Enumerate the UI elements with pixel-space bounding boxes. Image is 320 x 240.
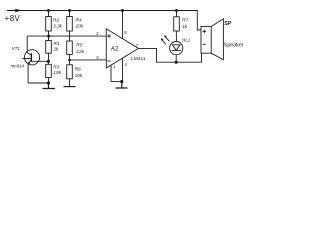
svg-text:10k: 10k — [75, 73, 83, 79]
svg-text:15k: 15k — [53, 70, 61, 76]
svg-text:3,3k: 3,3k — [53, 23, 63, 29]
node top rail junction R2 — [47, 9, 50, 12]
resistor R2 — [46, 11, 52, 37]
svg-text:Speaker: Speaker — [224, 43, 244, 49]
ground left — [43, 83, 56, 89]
node top rail junction R7 — [175, 9, 178, 12]
resistor R6 — [67, 60, 73, 87]
svg-text:2k: 2k — [53, 46, 60, 52]
wire noninverting net (collector to pin 2) — [27, 35, 106, 37]
ground R6 — [64, 86, 76, 88]
node junction R5/R6 — [68, 59, 71, 62]
speaker SP — [201, 19, 223, 60]
resistor R3 — [46, 61, 52, 83]
node LED cathode junction — [175, 61, 178, 64]
resistor R5 — [67, 36, 73, 60]
node bottom junction R3 — [47, 81, 50, 84]
svg-text:VT1: VT1 — [12, 46, 21, 51]
node top rail junction R4 — [68, 9, 71, 12]
svg-text:SP: SP — [224, 21, 232, 27]
node junction R2/R1 — [47, 35, 50, 38]
resistor R7 — [174, 11, 180, 42]
node supply arrow — [15, 9, 22, 12]
resistor R4 — [67, 11, 73, 37]
node junction R1/R3 emitter — [47, 60, 50, 63]
wire emitter net — [31, 60, 48, 62]
svg-text:+8V: +8V — [5, 14, 21, 23]
svg-text:R6: R6 — [75, 67, 81, 73]
node pin4 ground junction — [120, 80, 123, 83]
svg-text:20k: 20k — [75, 23, 84, 29]
wire inverting net (R5/R6 to pin 3) — [70, 59, 107, 61]
ground op-amp — [116, 82, 128, 88]
svg-text:HL1: HL1 — [182, 37, 191, 42]
wire +8V top rail — [7, 11, 201, 31]
svg-text:22k: 22k — [75, 49, 84, 55]
op-amp A2 — [106, 29, 138, 68]
LED HL1 — [161, 35, 183, 62]
svg-text:mn914: mn914 — [11, 64, 25, 69]
wire pin 4 — [122, 58, 124, 82]
wire emitter to ground rail — [28, 82, 48, 84]
node top rail junction pin8 — [121, 9, 124, 12]
wire pins 1-4 tie — [111, 81, 123, 83]
resistor R1 — [46, 36, 52, 61]
wire pin 1 — [110, 65, 112, 82]
svg-text:R3: R3 — [53, 64, 59, 70]
svg-text:A2: A2 — [111, 46, 119, 53]
svg-text:1k: 1k — [182, 24, 188, 30]
transistor VT1 — [22, 36, 40, 83]
svg-text:R4: R4 — [76, 17, 82, 23]
svg-text:LM311: LM311 — [131, 56, 146, 62]
svg-text:R2: R2 — [53, 18, 59, 24]
wire output net (pin 7 to LED and speaker) — [139, 48, 202, 62]
svg-text:R5: R5 — [76, 43, 82, 49]
svg-text:R1: R1 — [54, 41, 60, 47]
wire pin 8 — [122, 11, 124, 39]
svg-text:R7: R7 — [182, 18, 188, 24]
